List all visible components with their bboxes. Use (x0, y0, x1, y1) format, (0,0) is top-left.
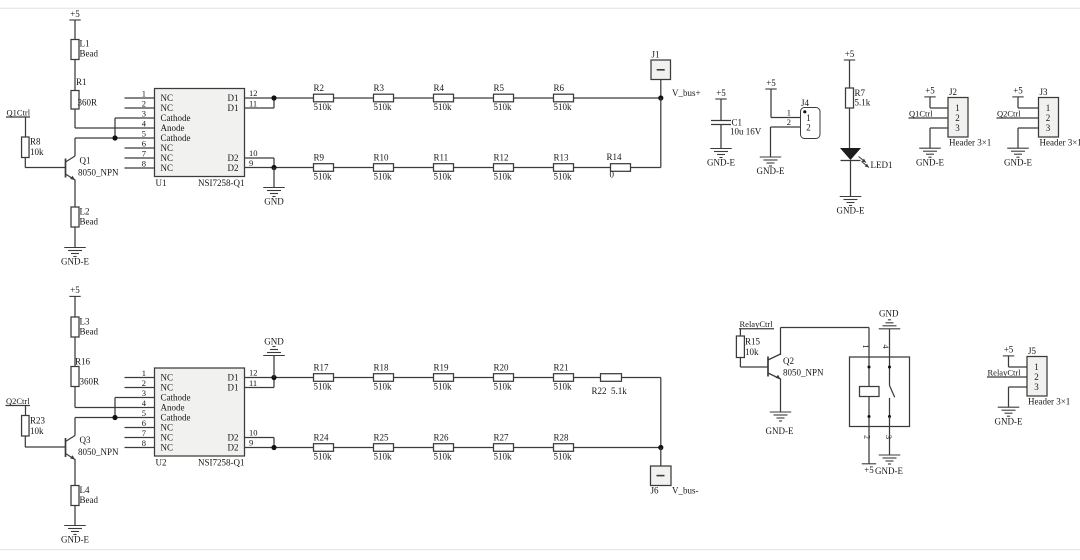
svg-text:U2: U2 (156, 458, 167, 468)
svg-text:Bead: Bead (80, 327, 99, 337)
svg-text:10k: 10k (30, 147, 44, 157)
svg-text:3: 3 (1034, 382, 1039, 392)
svg-text:J5: J5 (1028, 346, 1037, 356)
svg-text:L2: L2 (80, 207, 90, 217)
svg-text:R12: R12 (494, 153, 509, 163)
svg-text:2: 2 (863, 435, 872, 439)
svg-text:1: 1 (861, 345, 870, 349)
svg-text:RelayCtrl: RelayCtrl (740, 319, 774, 329)
svg-text:1: 1 (1034, 362, 1039, 372)
svg-text:3: 3 (142, 388, 146, 398)
svg-text:J4: J4 (801, 98, 810, 108)
svg-text:5.1k: 5.1k (855, 98, 871, 108)
svg-text:5: 5 (142, 408, 146, 418)
svg-text:6: 6 (142, 139, 146, 149)
svg-text:NSI7258-Q1: NSI7258-Q1 (198, 458, 245, 468)
svg-text:510k: 510k (434, 451, 453, 461)
svg-text:GND-E: GND-E (61, 535, 89, 545)
svg-text:Header 3×1: Header 3×1 (949, 138, 991, 148)
svg-text:GND: GND (264, 197, 284, 207)
svg-text:R27: R27 (494, 433, 510, 443)
svg-text:4: 4 (881, 345, 890, 349)
svg-text:8: 8 (142, 438, 146, 448)
svg-text:2: 2 (787, 117, 791, 127)
svg-text:1: 1 (806, 113, 811, 123)
svg-text:GND-E: GND-E (766, 426, 794, 436)
svg-text:GND-E: GND-E (837, 206, 865, 216)
svg-text:L3: L3 (80, 317, 90, 327)
svg-text:Anode: Anode (161, 403, 185, 413)
svg-text:Cathode: Cathode (161, 133, 191, 143)
svg-text:J2: J2 (949, 87, 957, 97)
svg-text:NC: NC (161, 153, 174, 163)
svg-text:+5: +5 (70, 9, 80, 19)
svg-text:0: 0 (610, 170, 615, 180)
svg-text:Q1Ctrl: Q1Ctrl (909, 108, 933, 118)
svg-text:D1: D1 (228, 383, 239, 393)
svg-text:Cathode: Cathode (161, 113, 191, 123)
svg-text:+5: +5 (70, 285, 80, 295)
svg-text:Q2Ctrl: Q2Ctrl (6, 396, 30, 406)
svg-text:R24: R24 (314, 433, 330, 443)
svg-text:V_bus-: V_bus- (672, 486, 699, 496)
svg-text:510k: 510k (494, 381, 513, 391)
svg-text:NC: NC (161, 163, 174, 173)
svg-text:9: 9 (249, 158, 253, 168)
svg-text:+5: +5 (925, 86, 935, 96)
svg-text:10: 10 (249, 148, 258, 158)
svg-text:R18: R18 (374, 363, 390, 373)
svg-text:R28: R28 (554, 433, 570, 443)
svg-text:3: 3 (884, 435, 893, 439)
svg-text:J6: J6 (651, 486, 660, 496)
svg-text:510k: 510k (374, 171, 393, 181)
svg-text:2: 2 (142, 378, 146, 388)
svg-text:NC: NC (161, 103, 174, 113)
svg-text:510k: 510k (554, 381, 573, 391)
svg-text:R13: R13 (554, 153, 570, 163)
svg-text:+5: +5 (716, 88, 726, 98)
svg-text:J3: J3 (1040, 87, 1049, 97)
svg-text:NC: NC (161, 373, 174, 383)
svg-text:10k: 10k (745, 347, 759, 357)
svg-text:D2: D2 (228, 153, 239, 163)
svg-text:510k: 510k (314, 171, 333, 181)
svg-text:2: 2 (1046, 113, 1051, 123)
svg-text:11: 11 (249, 378, 257, 388)
svg-text:1: 1 (1046, 103, 1051, 113)
svg-text:R26: R26 (434, 433, 450, 443)
svg-text:GND-E: GND-E (707, 158, 735, 168)
svg-text:GND-E: GND-E (1004, 157, 1032, 167)
svg-text:8050_NPN: 8050_NPN (78, 168, 119, 178)
svg-text:2: 2 (1034, 372, 1039, 382)
svg-text:510k: 510k (554, 171, 573, 181)
svg-text:LED1: LED1 (871, 160, 893, 170)
svg-text:Q3: Q3 (80, 435, 91, 445)
svg-text:11: 11 (249, 99, 257, 109)
svg-text:U1: U1 (156, 178, 167, 188)
svg-text:R6: R6 (554, 83, 565, 93)
svg-text:Cathode: Cathode (161, 393, 191, 403)
svg-text:510k: 510k (434, 381, 453, 391)
svg-text:2: 2 (142, 99, 146, 109)
svg-text:D2: D2 (228, 433, 239, 443)
svg-text:GND-E: GND-E (916, 157, 944, 167)
svg-text:6: 6 (142, 418, 146, 428)
svg-text:510k: 510k (434, 171, 453, 181)
svg-text:2: 2 (806, 123, 811, 133)
svg-text:510k: 510k (314, 381, 333, 391)
svg-text:V_bus+: V_bus+ (672, 88, 701, 98)
svg-text:GND: GND (264, 336, 284, 346)
svg-text:510k: 510k (374, 381, 393, 391)
svg-text:Cathode: Cathode (161, 413, 191, 423)
svg-text:R22 5.1k: R22 5.1k (592, 386, 628, 396)
svg-text:510k: 510k (554, 451, 573, 461)
svg-text:GND-E: GND-E (61, 257, 89, 267)
svg-text:Q1Ctrl: Q1Ctrl (7, 107, 31, 117)
svg-text:RelayCtrl: RelayCtrl (988, 367, 1022, 377)
svg-text:Bead: Bead (80, 217, 99, 227)
svg-text:7: 7 (142, 149, 146, 159)
svg-text:12: 12 (249, 368, 258, 378)
svg-text:R17: R17 (314, 363, 330, 373)
svg-text:8050_NPN: 8050_NPN (783, 368, 824, 378)
svg-text:NC: NC (161, 143, 174, 153)
svg-text:Q1: Q1 (80, 156, 91, 166)
svg-text:R19: R19 (434, 363, 450, 373)
svg-text:GND-E: GND-E (995, 416, 1023, 426)
svg-text:Bead: Bead (80, 495, 99, 505)
svg-text:Header 3×1: Header 3×1 (1028, 397, 1070, 407)
svg-text:D1: D1 (228, 103, 239, 113)
svg-text:R25: R25 (374, 433, 390, 443)
svg-text:R4: R4 (434, 83, 445, 93)
svg-text:R15: R15 (745, 337, 761, 347)
svg-text:Q2: Q2 (783, 356, 794, 366)
svg-text:5: 5 (142, 129, 146, 139)
svg-text:7: 7 (142, 428, 146, 438)
svg-text:510k: 510k (494, 102, 513, 112)
svg-text:510k: 510k (434, 102, 453, 112)
svg-text:R8: R8 (30, 137, 41, 147)
svg-text:8: 8 (142, 159, 146, 169)
svg-text:NC: NC (161, 443, 174, 453)
svg-text:R2: R2 (314, 83, 325, 93)
svg-text:GND-E: GND-E (875, 466, 903, 476)
svg-text:10u 16V: 10u 16V (730, 127, 762, 137)
svg-text:1: 1 (142, 368, 146, 378)
svg-text:510k: 510k (494, 451, 513, 461)
svg-text:510k: 510k (554, 102, 573, 112)
svg-text:Anode: Anode (161, 123, 185, 133)
svg-text:+5: +5 (1004, 345, 1014, 355)
svg-text:3: 3 (1046, 123, 1051, 133)
svg-text:L4: L4 (80, 485, 90, 495)
svg-text:R16: R16 (75, 356, 91, 366)
svg-text:8050_NPN: 8050_NPN (78, 447, 119, 457)
svg-text:R23: R23 (30, 416, 46, 426)
svg-text:GND: GND (879, 308, 899, 318)
svg-text:360R: 360R (78, 98, 98, 108)
svg-text:GND-E: GND-E (757, 166, 785, 176)
svg-text:1: 1 (142, 89, 146, 99)
svg-text:NC: NC (161, 433, 174, 443)
svg-text:510k: 510k (494, 171, 513, 181)
svg-text:510k: 510k (314, 451, 333, 461)
svg-text:360R: 360R (80, 377, 100, 387)
svg-text:510k: 510k (374, 102, 393, 112)
svg-text:J1: J1 (652, 50, 660, 60)
svg-text:10k: 10k (30, 426, 44, 436)
svg-text:R9: R9 (314, 153, 325, 163)
svg-text:R11: R11 (434, 153, 449, 163)
svg-text:1: 1 (787, 108, 791, 118)
svg-text:L1: L1 (80, 39, 90, 49)
svg-text:510k: 510k (314, 102, 333, 112)
svg-text:R1: R1 (76, 77, 87, 87)
svg-text:+5: +5 (864, 465, 874, 475)
svg-text:2: 2 (955, 113, 960, 123)
svg-text:R5: R5 (494, 83, 505, 93)
svg-text:12: 12 (249, 88, 258, 98)
svg-text:R21: R21 (554, 363, 569, 373)
svg-text:+5: +5 (1013, 86, 1023, 96)
svg-text:9: 9 (249, 438, 253, 448)
svg-text:R20: R20 (494, 363, 510, 373)
svg-text:D1: D1 (228, 93, 239, 103)
svg-text:+5: +5 (845, 49, 855, 59)
svg-text:+5: +5 (766, 78, 776, 88)
svg-text:NSI7258-Q1: NSI7258-Q1 (198, 178, 245, 188)
svg-text:3: 3 (142, 109, 146, 119)
svg-text:R7: R7 (855, 88, 866, 98)
svg-text:Q2Ctrl: Q2Ctrl (997, 108, 1021, 118)
svg-text:NC: NC (161, 93, 174, 103)
svg-text:Header 3×1: Header 3×1 (1040, 138, 1080, 148)
svg-text:NC: NC (161, 383, 174, 393)
svg-text:R14: R14 (607, 152, 623, 162)
svg-text:D2: D2 (228, 163, 239, 173)
svg-text:R10: R10 (374, 153, 390, 163)
svg-text:NC: NC (161, 423, 174, 433)
svg-text:Bead: Bead (80, 49, 99, 59)
svg-text:510k: 510k (374, 451, 393, 461)
svg-text:D1: D1 (228, 373, 239, 383)
svg-text:10: 10 (249, 428, 258, 438)
svg-text:3: 3 (955, 123, 960, 133)
svg-text:1: 1 (955, 103, 960, 113)
svg-text:R3: R3 (374, 83, 385, 93)
svg-text:D2: D2 (228, 443, 239, 453)
